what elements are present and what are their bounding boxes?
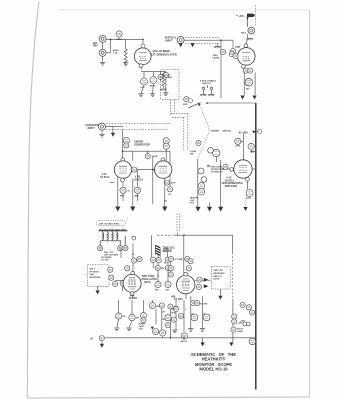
svg-text:NP HIGH: NP HIGH	[90, 271, 99, 273]
svg-text:CRT SOCKET PINS: CRT SOCKET PINS	[99, 224, 119, 226]
svg-text:7.2K: 7.2K	[113, 52, 118, 54]
svg-text:SWITCH: SWITCH	[202, 83, 211, 85]
svg-text:GENERATOR: GENERATOR	[134, 144, 150, 147]
svg-text:100K: 100K	[246, 197, 251, 199]
svg-text:47K: 47K	[156, 305, 160, 308]
svg-text:POT: POT	[190, 202, 195, 204]
svg-text:PER CRT: PER CRT	[213, 270, 223, 272]
svg-text:OSCILLATOR: OSCILLATOR	[142, 278, 158, 281]
svg-text:NE-2: NE-2	[241, 32, 247, 34]
svg-text:MFD: MFD	[120, 195, 125, 197]
svg-text:470K: 470K	[152, 155, 157, 158]
svg-text:47K: 47K	[136, 317, 140, 320]
svg-text:1/2 6CL6: 1/2 6CL6	[225, 180, 235, 182]
svg-text:MODEL HO-10: MODEL HO-10	[199, 367, 228, 372]
svg-text:2 TONE: 2 TONE	[175, 259, 183, 261]
svg-text:LIGHT: LIGHT	[237, 331, 244, 333]
svg-text:47K: 47K	[165, 289, 169, 292]
svg-text:MOD: MOD	[172, 312, 177, 314]
svg-text:1/2 5971: 1/2 5971	[174, 299, 184, 301]
svg-text:HEATHKIT®: HEATHKIT®	[202, 357, 226, 362]
svg-text:TO CRT: TO CRT	[200, 303, 208, 305]
svg-text:4.5C: 4.5C	[140, 86, 145, 89]
svg-text:INPUT: INPUT	[88, 127, 96, 130]
svg-text:V 3A: V 3A	[102, 173, 107, 176]
svg-text:2x47: 2x47	[90, 273, 96, 276]
svg-text:NOTE: NOTE	[213, 279, 220, 281]
svg-text:OUTPUT: OUTPUT	[163, 250, 173, 252]
svg-text:470K: 470K	[236, 145, 241, 148]
svg-text:VERT/HORIZONTAL: VERT/HORIZONTAL	[222, 182, 244, 185]
svg-text:4 POS JUMBLE: 4 POS JUMBLE	[200, 79, 217, 82]
svg-text:47K: 47K	[155, 289, 159, 292]
svg-text:+45V: +45V	[239, 15, 245, 18]
svg-text:TONE OSC: TONE OSC	[163, 248, 175, 250]
svg-text:22K: 22K	[161, 268, 165, 270]
svg-text:TO CRT: TO CRT	[101, 259, 109, 261]
svg-text:1M: 1M	[162, 319, 165, 321]
svg-text:+45V: +45V	[240, 319, 246, 322]
svg-text:INPUT: INPUT	[166, 39, 174, 42]
svg-text:AMPLIFIER: AMPLIFIER	[225, 185, 238, 188]
svg-text:NETWORK: NETWORK	[213, 273, 225, 275]
svg-text:OF SWITCH: OF SWITCH	[211, 171, 223, 173]
svg-text:1/2 6CL6: 1/2 6CL6	[100, 177, 110, 179]
svg-text:LEVEL: LEVEL	[213, 58, 221, 60]
svg-text:V7B: V7B	[235, 46, 240, 49]
svg-text:ASTIG: ASTIG	[181, 340, 188, 343]
svg-text:NE-51: NE-51	[150, 86, 157, 88]
svg-text:1ST DEMODULATOR: 1ST DEMODULATOR	[151, 52, 177, 56]
svg-text:MFD: MFD	[134, 195, 139, 197]
svg-text:1M: 1M	[122, 316, 125, 318]
svg-text:POT: POT	[139, 329, 144, 331]
svg-text:V6B: V6B	[171, 296, 176, 298]
svg-text:1/2 5971: 1/2 5971	[129, 298, 139, 300]
svg-text:1/2 6CL6: 1/2 6CL6	[134, 179, 144, 181]
svg-text:SEE PG: SEE PG	[213, 276, 221, 278]
svg-text:TRIG: TRIG	[93, 45, 99, 47]
svg-text:V 3B: V 3B	[135, 177, 140, 179]
svg-text:45V: 45V	[246, 87, 250, 90]
svg-text:MEG: MEG	[168, 77, 173, 79]
svg-text:V 4C: V 4C	[227, 177, 232, 180]
svg-text:SWEEP SWITCH: SWEEP SWITCH	[211, 130, 232, 132]
svg-text:V6A: V6A	[130, 294, 135, 297]
svg-text:(5971): (5971)	[144, 282, 151, 284]
svg-text:LA: LA	[164, 200, 167, 203]
svg-text:.1MFD: .1MFD	[116, 39, 123, 41]
svg-text:.J6.: .J6.	[90, 338, 94, 340]
svg-text:450 V: 450 V	[90, 268, 96, 271]
svg-text:NETWORK: NETWORK	[90, 277, 102, 279]
svg-text:MFD: MFD	[183, 104, 188, 106]
svg-text:SW: SW	[190, 154, 193, 156]
svg-text:1K: 1K	[168, 194, 171, 196]
